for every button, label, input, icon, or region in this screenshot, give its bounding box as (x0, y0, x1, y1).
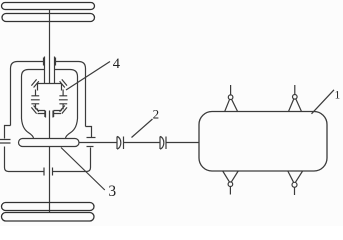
leader line to 1 (312, 90, 335, 114)
leader line to 3 (61, 148, 105, 191)
pinion shaft flank right below square (52, 111, 54, 118)
bevel mesh ticks top-right corner (60, 79, 67, 87)
housing bell flare left (22, 119, 34, 139)
bevel mesh ticks bottom-left corner (31, 106, 38, 114)
leader line to 4 (66, 62, 110, 91)
mount bottom-left stem (229, 187, 231, 195)
left axle stub double line (0, 140, 11, 144)
right bearing tick upper (87, 137, 96, 139)
wheel W-top tire outer (2, 3, 95, 10)
mount bottom-right legs (288, 171, 303, 182)
housing lower right wall (53, 148, 91, 172)
side bevel gear right, bars (59, 96, 68, 104)
svg-text:2: 2 (153, 107, 160, 122)
housing right wall jog (86, 127, 92, 138)
svg-text:3: 3 (108, 183, 116, 200)
svg-text:1: 1 (335, 90, 341, 102)
gear square bottom edge (38, 110, 62, 112)
mount bottom-right circle (292, 182, 297, 187)
pinion shaft flank left below square (45, 111, 47, 118)
universal joint U1 bar (123, 137, 125, 150)
wheel W-bottom tire outer (2, 213, 95, 222)
gear square left edge (37, 84, 39, 111)
side bevel gear left, stem top (35, 90, 37, 96)
housing left wall jog (5, 126, 45, 172)
mount top-left stem (230, 85, 232, 95)
lower gear cap right (52, 168, 54, 176)
wheel W-top tire inner (2, 14, 95, 22)
side bevel gear left, stem bottom (35, 104, 37, 109)
universal joint U2 bar (165, 137, 167, 150)
mount top-right legs (289, 99, 302, 112)
engine block 1 (199, 112, 327, 172)
bearing flank left of input shaft (44, 57, 46, 84)
mount top-right stem (294, 85, 296, 95)
mount top-left legs (225, 99, 238, 111)
mount bottom-right stem (294, 187, 296, 195)
housing outer shell (11, 62, 86, 127)
bearing flank right of input shaft (54, 57, 56, 84)
carrier bearing bar left below square (38, 111, 45, 117)
universal joint U1 cone (117, 137, 121, 150)
crown wheel bar 3 (19, 139, 80, 147)
wheel W-bottom tire inner (2, 203, 95, 211)
bevel mesh ticks top-left corner (31, 79, 38, 87)
housing bell flare right (66, 119, 78, 139)
propeller shaft 2 (124, 142, 161, 144)
side bevel gear right, stem top (62, 90, 64, 96)
mount bottom-left circle (228, 182, 233, 187)
right wall T-cap tick (87, 146, 94, 148)
wire top axle shaft vertical (49, 10, 51, 84)
lower gear cap left (43, 168, 45, 176)
mount bottom-left legs (223, 171, 239, 182)
side bevel gear left, bars (31, 96, 40, 104)
gear square top edge (38, 83, 62, 85)
universal joint U2 cone (160, 137, 164, 150)
bearing cap right on outer top edge (55, 58, 57, 66)
output shaft to coupling (79, 142, 117, 144)
gear square right edge (61, 84, 63, 111)
shaft to engine (166, 142, 200, 144)
side bevel gear right, stem bottom (62, 104, 64, 109)
housing inner shell (22, 70, 78, 119)
mount top-left circle (228, 95, 233, 100)
wire vertical shaft square to wheel (49, 111, 51, 213)
mount top-right circle (293, 95, 298, 100)
bevel mesh ticks bottom-right corner (60, 106, 67, 114)
carrier bearing bar right below square (54, 111, 61, 117)
bearing cap left on outer top edge (43, 58, 45, 66)
leader line to 2 (132, 119, 153, 138)
svg-text:4: 4 (113, 56, 121, 72)
